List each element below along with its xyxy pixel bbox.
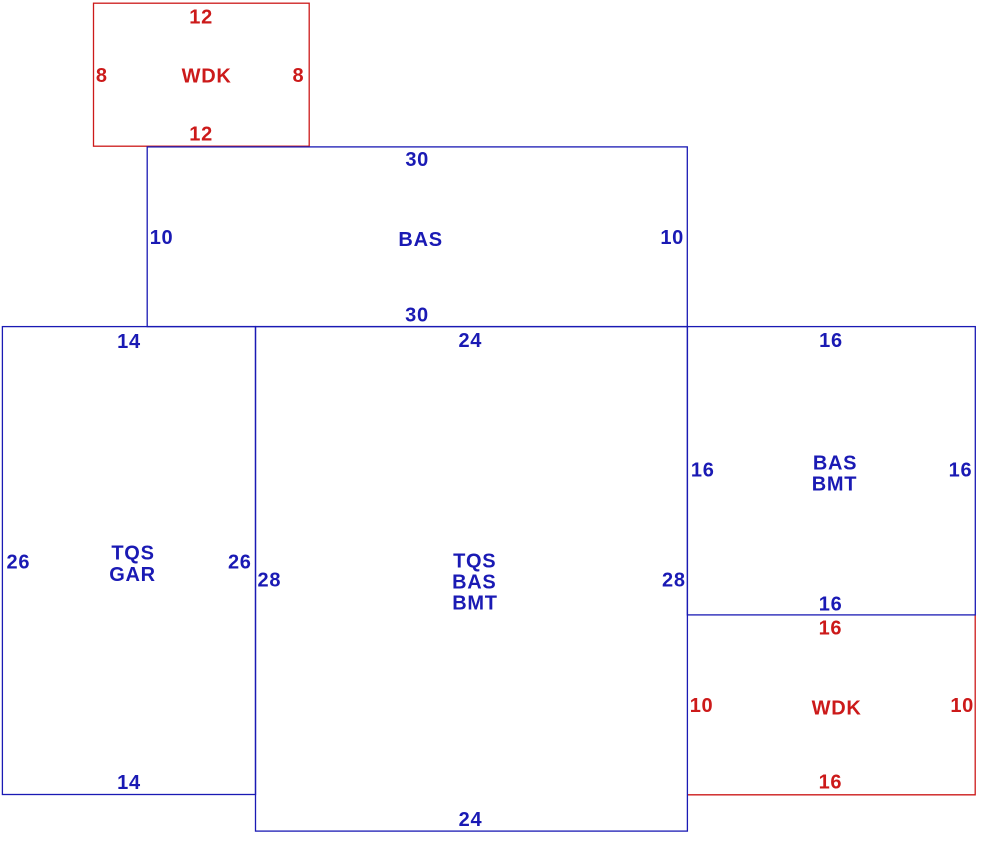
svg-text:WDK: WDK [182, 66, 232, 88]
svg-text:TQS: TQS [111, 543, 154, 565]
svg-text:WDK: WDK [812, 697, 862, 719]
svg-text:10: 10 [950, 695, 974, 717]
svg-text:16: 16 [819, 618, 843, 640]
svg-text:12: 12 [189, 6, 213, 28]
svg-text:GAR: GAR [109, 564, 156, 586]
svg-text:16: 16 [691, 459, 715, 481]
svg-text:24: 24 [459, 809, 483, 831]
svg-text:10: 10 [660, 227, 684, 249]
svg-text:BAS: BAS [813, 452, 857, 474]
svg-text:BAS: BAS [452, 571, 496, 593]
svg-text:26: 26 [228, 552, 252, 574]
svg-text:16: 16 [949, 459, 973, 481]
svg-text:16: 16 [819, 330, 843, 352]
svg-text:16: 16 [819, 594, 843, 616]
svg-text:BMT: BMT [452, 593, 497, 615]
svg-text:30: 30 [405, 304, 429, 326]
svg-text:30: 30 [405, 149, 429, 171]
svg-text:BAS: BAS [398, 229, 442, 251]
svg-text:10: 10 [150, 227, 174, 249]
svg-text:16: 16 [819, 772, 843, 794]
svg-text:TQS: TQS [453, 550, 496, 572]
svg-text:10: 10 [690, 695, 714, 717]
svg-text:8: 8 [292, 65, 304, 87]
svg-text:26: 26 [7, 552, 31, 574]
svg-text:BMT: BMT [812, 474, 857, 496]
svg-text:28: 28 [258, 569, 282, 591]
svg-text:14: 14 [117, 772, 141, 794]
svg-text:24: 24 [458, 330, 482, 352]
svg-text:28: 28 [662, 569, 686, 591]
svg-text:14: 14 [117, 331, 141, 353]
svg-text:8: 8 [96, 65, 108, 87]
svg-text:12: 12 [189, 124, 213, 146]
